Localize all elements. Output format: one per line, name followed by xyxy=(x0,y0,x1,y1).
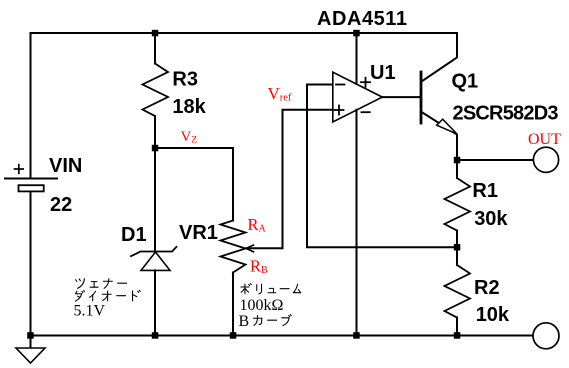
svg-text:10k: 10k xyxy=(476,304,510,326)
label 18k xyxy=(172,96,206,118)
label ADA4511 xyxy=(317,8,407,30)
node feedback junction xyxy=(454,244,461,251)
resistor R1 xyxy=(445,178,471,231)
wire VZ node to VR1 top xyxy=(155,148,233,221)
svg-text:OUT: OUT xyxy=(528,131,561,148)
svg-text:VIN: VIN xyxy=(49,155,82,177)
wire Q1 collector xyxy=(422,33,458,82)
svg-text:U1: U1 xyxy=(370,62,396,84)
label R3 xyxy=(172,69,198,91)
label VR1 xyxy=(179,222,218,244)
label VZ red xyxy=(181,129,198,146)
transistor Q1 base bar xyxy=(420,72,423,123)
wire U1 negative supply xyxy=(356,110,358,336)
label R1 xyxy=(472,180,498,202)
battery VIN negative plate xyxy=(19,185,44,191)
battery VIN positive plate xyxy=(5,178,57,180)
svg-text:R1: R1 xyxy=(472,180,498,202)
resistor R3 xyxy=(143,64,169,117)
wire bottom rail xyxy=(31,335,534,337)
label 22 xyxy=(50,194,72,216)
text B curve kana xyxy=(253,315,291,326)
node top rail R3 junction xyxy=(152,30,159,37)
node OUT junction xyxy=(454,157,461,164)
svg-text:R2: R2 xyxy=(474,277,500,299)
wire Q1 emitter xyxy=(422,112,458,160)
label 2SCR582D3 xyxy=(453,103,559,125)
svg-text:B: B xyxy=(239,313,250,330)
potentiometer VR1 xyxy=(221,221,246,273)
node bottom rail R2 junction xyxy=(454,332,461,339)
node bottom rail U1 supply junction xyxy=(353,332,360,339)
wire opamp minus input feedback xyxy=(307,85,457,248)
diode D1 zener cathode bar xyxy=(131,247,177,256)
wire R2 to bottom rail xyxy=(456,318,458,336)
label Vref red xyxy=(268,84,292,104)
label 100k ohm xyxy=(240,297,284,314)
battery plus sign xyxy=(15,165,24,174)
wire D1 bottom xyxy=(154,270,156,335)
svg-text:18k: 18k xyxy=(172,96,206,118)
wire VR1 wiper to opamp plus input xyxy=(247,110,333,249)
svg-text:ADA4511: ADA4511 xyxy=(317,8,407,30)
opamp supply plus sign xyxy=(361,78,370,87)
wire U1 positive supply xyxy=(356,33,358,84)
wire VR1 bottom xyxy=(232,273,234,336)
label 10k xyxy=(476,304,510,326)
wire ground stem xyxy=(30,336,32,349)
wire left vertical VIN+ xyxy=(30,33,32,179)
wire R3 bottom to VZ node xyxy=(154,116,156,148)
svg-text:5.1V: 5.1V xyxy=(74,302,106,319)
terminal bottom right circle xyxy=(533,323,559,349)
label RA red xyxy=(248,215,267,235)
wire VZ node to D1 xyxy=(154,148,156,252)
svg-text:R3: R3 xyxy=(172,69,198,91)
node bottom rail D1 junction xyxy=(152,332,159,339)
wire OUT node to R1 xyxy=(456,160,458,178)
label OUT red xyxy=(528,131,561,148)
label Q1 xyxy=(452,70,479,92)
wire battery minus to bottom rail xyxy=(30,192,32,336)
Q1 emitter arrowhead xyxy=(437,119,457,134)
node VZ junction xyxy=(152,145,159,152)
opamp plus input sign xyxy=(335,106,344,115)
label 5.1V xyxy=(74,302,106,319)
svg-text:D1: D1 xyxy=(121,224,147,246)
wire top rail xyxy=(31,32,458,34)
wire U1 output to Q1 base xyxy=(382,96,421,98)
ground xyxy=(16,348,45,363)
node bottom rail VR1 junction xyxy=(230,332,237,339)
wire feedback node to R2 xyxy=(456,247,458,265)
label D1 xyxy=(121,224,147,246)
resistor R2 xyxy=(445,265,471,318)
text volume japanese xyxy=(241,283,301,293)
label B curve B xyxy=(239,313,250,330)
svg-text:22: 22 xyxy=(50,194,72,216)
terminal OUT circle xyxy=(533,147,558,172)
wire R1 to feedback node xyxy=(456,231,458,248)
diode D1 anode triangle xyxy=(141,252,170,270)
text zener diode japanese line2 xyxy=(75,290,140,301)
opamp minus input sign xyxy=(336,84,345,86)
label R2 xyxy=(474,277,500,299)
label U1 xyxy=(370,62,396,84)
opamp supply minus sign xyxy=(362,111,370,113)
text zener diode japanese line1 xyxy=(76,279,127,289)
label RB red xyxy=(250,257,268,277)
svg-text:Q1: Q1 xyxy=(452,70,479,92)
label 30k xyxy=(474,208,508,230)
node top rail U1 supply junction xyxy=(353,30,360,37)
op-amp U1 xyxy=(333,72,383,122)
svg-text:100kΩ: 100kΩ xyxy=(240,297,284,314)
svg-text:VR1: VR1 xyxy=(179,222,218,244)
VR1 wiper arrowhead xyxy=(246,245,254,252)
node bottom rail ground junction xyxy=(27,332,34,339)
label VIN xyxy=(49,155,82,177)
wire R3 top xyxy=(154,33,156,64)
svg-text:2SCR582D3: 2SCR582D3 xyxy=(453,103,559,125)
wire OUT node to terminal xyxy=(457,159,533,161)
svg-text:30k: 30k xyxy=(474,208,508,230)
